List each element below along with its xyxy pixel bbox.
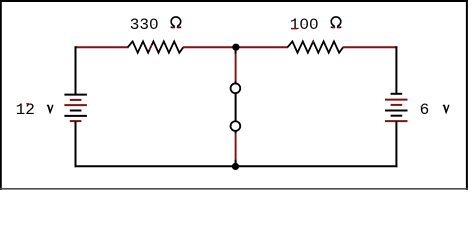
terminal T1 (open circle): [231, 83, 241, 93]
wire: black stub above node B: [235, 160, 237, 164]
svg-text:330: 330: [130, 16, 159, 34]
battery B1 (12 V): [64, 95, 87, 122]
wire: middle branch lower (red, terminal T2 to node B): [235, 131, 237, 163]
wire: black stub below node A: [235, 50, 237, 54]
label R1 value 330 Ω: [130, 16, 181, 34]
resistor R2 (100 ohm zigzag): [288, 41, 344, 52]
label B2 value 6 V: [420, 101, 450, 119]
svg-text:100: 100: [290, 16, 319, 34]
resistor R1 (330 ohm zigzag): [128, 41, 184, 52]
battery B2 (6 V): [385, 94, 408, 121]
wire: middle branch between terminals (black): [235, 93, 237, 122]
wire: left branch lower (black): [75, 121, 77, 167]
wire: top rail middle segment (red): [183, 46, 288, 48]
wire: bottom rail (black): [75, 165, 398, 167]
wire: top rail left segment (red): [75, 46, 129, 48]
svg-text:6: 6: [420, 101, 430, 119]
wire: black stub below terminal T2: [235, 130, 237, 133]
wire: right branch upper (black): [395, 46, 397, 94]
wire: middle branch upper (red, node A to terminal T1): [235, 51, 237, 85]
node A (top junction dot): [232, 44, 239, 51]
svg-text:12: 12: [16, 101, 35, 119]
terminal T2 (open circle): [231, 121, 241, 131]
wire: right branch lower (black): [395, 121, 397, 167]
red segment artifact on R1 zigzag: [150, 45, 152, 50]
wire: black stub above terminal T1: [235, 81, 237, 84]
label R2 value 100 Ω: [290, 16, 342, 34]
wire: top rail right segment (red): [343, 46, 398, 48]
label B1 value 12 V: [16, 101, 54, 119]
red dot artifact on R2 zigzag peak: [312, 41, 314, 43]
wire: left branch upper (black): [75, 46, 77, 94]
node B (bottom junction dot): [232, 163, 239, 170]
